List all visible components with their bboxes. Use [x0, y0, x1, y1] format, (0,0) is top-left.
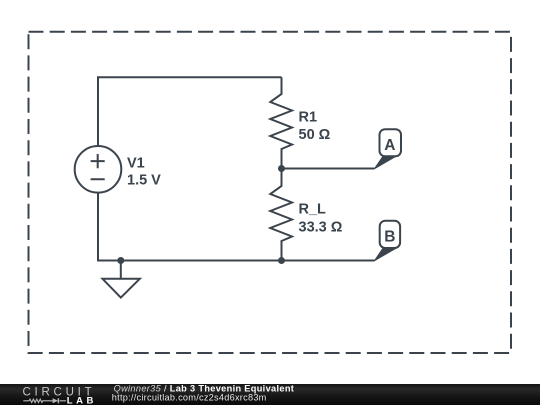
- svg-text:50 Ω: 50 Ω: [299, 127, 331, 143]
- CircuitLab logo wordmark LAB: [67, 396, 97, 405]
- footer bar: [0, 384, 540, 405]
- svg-text:R1: R1: [299, 110, 318, 126]
- svg-text:A: A: [384, 137, 395, 154]
- voltage source V1: [75, 146, 122, 193]
- wire V1 plus to R1 top: [98, 77, 282, 147]
- label V1 1.5 V: [127, 156, 161, 189]
- flag node A: [375, 129, 402, 169]
- label R1 50 Ω: [299, 110, 331, 143]
- resistor R_L: [270, 169, 292, 261]
- node junction dot ground: [117, 257, 124, 264]
- credits line 2 url: [112, 392, 267, 402]
- credits line 1: [114, 384, 295, 394]
- svg-text:1.5 V: 1.5 V: [127, 172, 161, 188]
- wire node A horizontal: [282, 168, 375, 170]
- resistor R1: [270, 77, 292, 168]
- flag node B: [375, 221, 401, 261]
- CircuitLab logo resistor-diode line: [23, 398, 66, 403]
- svg-text:LAB: LAB: [67, 396, 97, 405]
- svg-text:R_L: R_L: [299, 201, 327, 217]
- node junction dot A: [278, 165, 285, 172]
- wire V1 minus along bottom to B: [98, 193, 375, 261]
- node junction dot B: [278, 257, 285, 264]
- schematic boundary dashes (decorative frame): [29, 32, 512, 353]
- label R_L 33.3 Ω: [299, 201, 343, 235]
- ground symbol: [103, 261, 140, 298]
- svg-text:B: B: [384, 228, 395, 245]
- CircuitLab logo wordmark CIRCUIT: [23, 387, 96, 399]
- svg-text:http://circuitlab.com/cz2s4d6x: http://circuitlab.com/cz2s4d6xrc83m: [112, 392, 267, 402]
- svg-text:V1: V1: [127, 156, 145, 172]
- svg-text:33.3 Ω: 33.3 Ω: [299, 219, 343, 235]
